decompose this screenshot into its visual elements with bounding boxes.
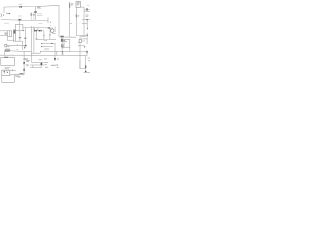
capacitor C1 plates [34, 11, 37, 14]
big box bottom-left [1, 57, 15, 65]
label small right [82, 40, 85, 42]
vertical x43.9 down [43, 31, 45, 40]
label right of snubber [65, 40, 67, 42]
wire y41.2 [15, 40, 23, 42]
node dot lower plug [2, 15, 5, 16]
diode D3 [35, 30, 37, 32]
inductor coil marks [69, 4, 70, 7]
comp between wires x41.5 [40, 62, 42, 67]
vertical x85.7 lower [85, 56, 87, 73]
node dot y51 [62, 51, 63, 52]
wire y55.3 long [0, 54, 86, 57]
capacitor C1 top lead [35, 7, 37, 12]
vertical x87.1 mid [86, 33, 88, 44]
diode D1 [20, 6, 22, 8]
vertical x56.8 [56, 51, 58, 55]
wire rail x33.9 lower [33, 27, 35, 54]
wire y72.4 bottom right [84, 71, 91, 73]
wire y39.6 [37, 38, 56, 41]
small circle mark [57, 64, 58, 65]
inductor L right rail top [69, 3, 71, 38]
vertical x55 with ground [54, 44, 56, 59]
vertical x50.1 [49, 28, 51, 35]
label left low [4, 22, 9, 24]
snubber cap marks [48, 27, 49, 29]
wire y37.1 [59, 36, 76, 38]
loop under opto [2, 75, 15, 83]
diode D4 [39, 30, 42, 32]
bridge box tall [13, 30, 15, 41]
arrow tick [57, 58, 59, 60]
capacitor bar on x25.3 [24, 37, 27, 39]
label D2 [19, 15, 22, 17]
bottom right vertical x79.9 [80, 60, 86, 69]
wire y53.2 [31, 51, 40, 53]
node dot right edge [89, 60, 90, 61]
dark dash on y43.6 [51, 43, 53, 45]
wire y65 [30, 64, 44, 66]
vertical x4.4 [3, 51, 5, 56]
ground T-bar [25, 44, 27, 47]
label L2 [71, 4, 73, 5]
label mid left [37, 14, 43, 16]
text row mW [51, 64, 56, 66]
text row y76.2 [15, 75, 20, 77]
wire top corner down [58, 5, 60, 36]
label mid text [44, 40, 47, 42]
node dot plug [9, 13, 10, 14]
wire y70.2 [2, 69, 16, 71]
node dot x87.1 y35.2 [87, 35, 88, 36]
label right of D7 [26, 65, 28, 66]
vertical x87.2 [86, 20, 88, 29]
wire y74.8 right of opto [10, 74, 24, 76]
label right of D6 [26, 60, 30, 61]
bottom-mid wires y62.4 [32, 61, 44, 63]
resistor R1 vertical [31, 13, 32, 16]
diode D5 drop [24, 45, 26, 47]
vertical x84 top [83, 7, 85, 11]
wire y43.6 [42, 43, 56, 45]
rail x84 [83, 11, 85, 35]
link bar y14.9 [31, 14, 35, 16]
vertical x36.6 down [36, 32, 38, 40]
Q1 connections [50, 28, 56, 33]
wire y9.5 [84, 9, 90, 11]
wire y51.2 long [40, 50, 82, 52]
opto internals [4, 72, 8, 73]
connector box left edge [0, 14, 2, 17]
resistor on y50.5 [4, 50, 10, 52]
comp dark x41.5 [41, 63, 43, 65]
label 10n [39, 59, 42, 61]
cap plates right top [86, 8, 87, 10]
vertical x80 lower [79, 43, 81, 69]
diode D6 [23, 62, 25, 64]
small box inner [9, 31, 11, 37]
node dot y46.7 [41, 46, 42, 47]
wire y51.7 left [11, 50, 32, 53]
corner x32.8 [32, 65, 34, 68]
plus polarity mark [23, 30, 24, 31]
label near diodes [35, 38, 37, 40]
top-right IC box [76, 2, 81, 8]
stub y23.6 [70, 23, 72, 25]
wire AC line bottom (wire2) [1, 20, 48, 21]
IC box text [77, 3, 80, 5]
label D1 [19, 3, 23, 5]
wire from IC box right [81, 6, 85, 8]
plus mark [64, 40, 65, 41]
node dot x87.2 [87, 28, 88, 29]
opto box [2, 70, 10, 75]
wire seg to diode [82, 50, 87, 51]
dark dashes on box top [4, 56, 8, 58]
wire y45.3 left [7, 44, 25, 46]
diode chain wire y30.7 [34, 30, 44, 32]
ground symbol [54, 59, 56, 61]
wire y42.7 left stub [78, 42, 79, 44]
wire y40.4 [8, 37, 15, 41]
diode at right end y51 [86, 51, 88, 53]
vertical x24.1 diode column [23, 52, 25, 75]
node dot y70.2 [12, 70, 13, 71]
label right of comp [78, 16, 80, 17]
diode chain drops [34, 28, 38, 31]
wire left to small box [0, 30, 8, 32]
vertical x76.3 from IC [75, 7, 77, 35]
switch S1 [7, 12, 10, 15]
marks on x43.9 [43, 34, 44, 37]
small comp on rail [61, 45, 63, 47]
label row under y35 [81, 35, 86, 37]
transistor Q1 circle [51, 29, 54, 32]
label right of comp [7, 45, 9, 47]
cap small right [87, 19, 88, 20]
vertical x22.5 [22, 41, 24, 50]
comp on x76.3 [76, 15, 77, 17]
wire y67.6 [30, 67, 41, 69]
vertical x19.9 [19, 31, 21, 42]
label above y51 [44, 48, 49, 50]
filter box [15, 24, 23, 30]
wire rail x31.2 [30, 16, 32, 20]
node dot y43.6 [41, 43, 42, 44]
comp small at left of y45.3 [5, 44, 7, 47]
rail x62.1 [61, 37, 63, 55]
small box right [79, 39, 81, 42]
tick above junction [49, 25, 51, 26]
wire y11.2 [84, 10, 90, 12]
resistor zigzag on y74.8 [15, 74, 20, 76]
label left of box [5, 33, 8, 34]
aux box bottom wire [62, 47, 70, 51]
vertical x62.9 [62, 52, 64, 56]
arrow down terminal [84, 46, 86, 47]
node dot Q1 gate [49, 34, 50, 35]
wire y19.6 right [82, 19, 90, 21]
capacitor C1 bottom lead [35, 13, 37, 20]
transformer primary left [54, 27, 56, 33]
arrow head [84, 47, 85, 48]
label below wire2 [38, 22, 42, 24]
wire y23.6 right [82, 23, 87, 25]
label above diode col [23, 58, 27, 60]
wire y46.7 [42, 46, 53, 48]
wire y45.8 right [78, 45, 84, 47]
vertical x49.3 lower [49, 35, 51, 40]
bridge box marks [14, 30, 16, 33]
wire AC left vertical [3, 7, 5, 13]
label near cap [87, 4, 89, 6]
blob near x50 [50, 22, 51, 23]
faint text left of diode drop [16, 49, 18, 51]
filter box inner [18, 24, 20, 30]
label right text rows [86, 15, 89, 16]
label under C1 [37, 8, 41, 10]
text under box [5, 68, 11, 69]
wire y38.9 [81, 38, 87, 40]
transformer core area dark [60, 35, 63, 38]
snubber cluster under transformer [61, 39, 62, 42]
aux box [64, 39, 70, 47]
comp dark lower [85, 71, 86, 72]
resistor R2 vertical [33, 13, 34, 16]
small box left [8, 31, 12, 37]
wire left lower into box [0, 35, 8, 37]
label above resistor [5, 48, 10, 50]
wire from filter box right [23, 27, 50, 29]
label C1 right of junction [37, 6, 41, 7]
wire rail x31.3 lower [30, 26, 32, 62]
diode D7 [23, 69, 25, 71]
label right edge y58 [88, 57, 91, 59]
stub x17.2 [16, 44, 18, 45]
wire vertical into filter box [18, 20, 20, 24]
dark label TL431 [20, 73, 24, 75]
diode D8 [85, 66, 87, 68]
text small below [57, 67, 59, 69]
wire2 end vertical x48 [47, 17, 49, 23]
wire rail x33.9 [33, 16, 35, 20]
wire y35.2 [76, 35, 87, 39]
text column bottom-middle [44, 58, 47, 60]
diode D2 [19, 19, 22, 21]
wire AC line top [4, 5, 59, 7]
vertical x25.3 [24, 28, 26, 46]
tick top of rail [69, 2, 70, 4]
capacitor bar on x19.9 [19, 37, 22, 39]
text right of loop [18, 76, 20, 78]
vertical x87 down [86, 53, 87, 56]
diode D5 [24, 47, 26, 48]
resistor body [5, 50, 9, 52]
